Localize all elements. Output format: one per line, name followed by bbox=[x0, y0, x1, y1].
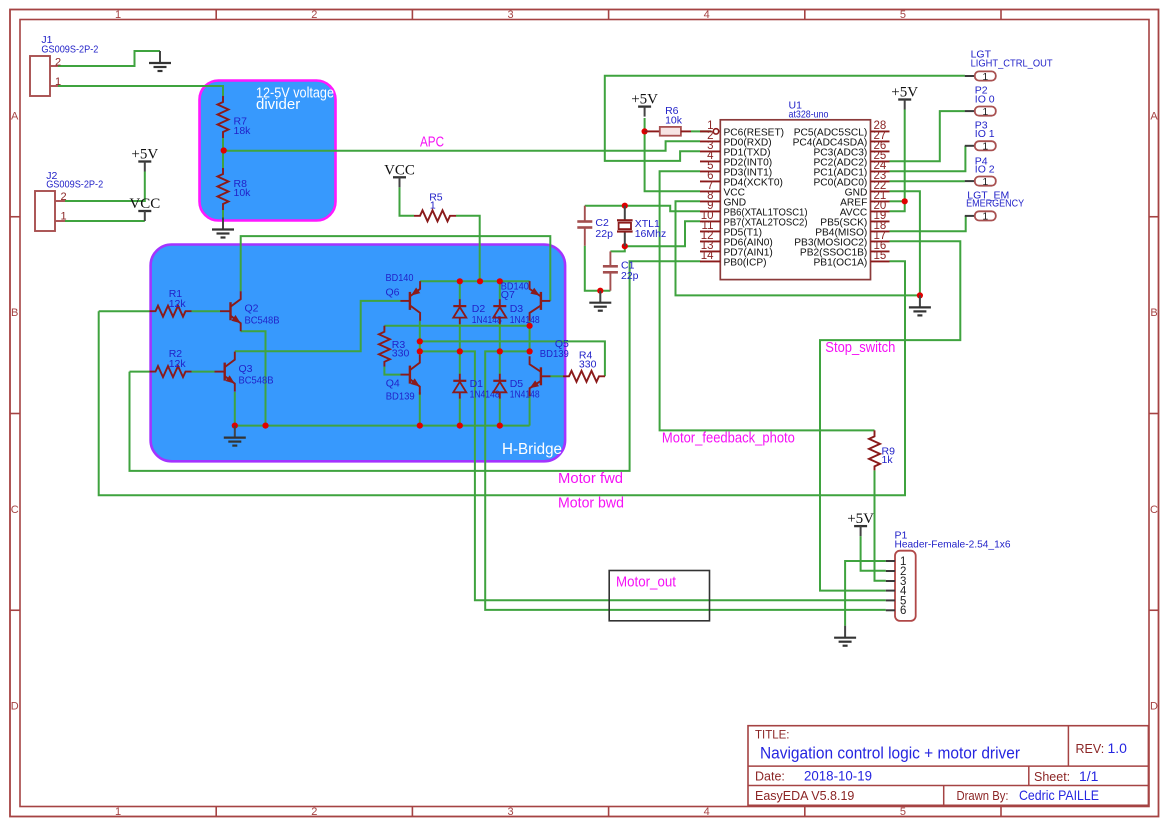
connector P2 IO 0 bbox=[965, 85, 996, 118]
svg-text:C: C bbox=[1150, 504, 1158, 516]
svg-text:D5: D5 bbox=[510, 378, 524, 390]
svg-text:2: 2 bbox=[61, 191, 67, 203]
svg-text:Header-Female-2.54_1x6: Header-Female-2.54_1x6 bbox=[895, 539, 1011, 551]
svg-text:22p: 22p bbox=[621, 270, 639, 282]
IC U1 at328-uno bbox=[700, 99, 890, 279]
junction top rail D2 bbox=[457, 278, 463, 284]
resistor R6 bbox=[645, 105, 691, 136]
resistor R1 bbox=[150, 288, 192, 317]
wire Q3 collector to Q6 base bbox=[235, 301, 401, 351]
header P1 Header-Female-2.54_1x6 bbox=[886, 530, 1011, 621]
svg-text:14: 14 bbox=[701, 250, 714, 262]
svg-text:EMERGENCY: EMERGENCY bbox=[966, 198, 1024, 210]
svg-text:1N4148: 1N4148 bbox=[470, 390, 500, 401]
transistor Q4 BD139 bbox=[386, 355, 420, 403]
ground (U1 GND) bbox=[909, 295, 931, 315]
wire Q5 base to R4 bbox=[551, 375, 564, 377]
junction +5V/R6/VCC pin7 bbox=[642, 128, 648, 134]
H-Bridge box bbox=[151, 245, 565, 462]
svg-text:330: 330 bbox=[392, 348, 410, 360]
junction divider/APC bbox=[221, 147, 227, 153]
svg-text:Q4: Q4 bbox=[386, 378, 400, 390]
transistor Q6 BD140 bbox=[386, 272, 421, 321]
svg-text:4: 4 bbox=[704, 9, 710, 21]
svg-text:TITLE:: TITLE: bbox=[755, 730, 790, 742]
connector J2 GS009S-2P-2 bbox=[35, 170, 103, 231]
svg-text:PB0(ICP): PB0(ICP) bbox=[724, 257, 767, 268]
wire U1 pin18 to LGT_EM bbox=[890, 216, 966, 231]
wire Q3 emitter down bbox=[234, 392, 236, 426]
+5V flag (U1 AREF/AVCC) bbox=[891, 85, 918, 110]
svg-text:Date:: Date: bbox=[755, 770, 785, 784]
wire R5 to H-bridge top rail bbox=[456, 216, 480, 281]
svg-text:2: 2 bbox=[55, 57, 61, 69]
net label APC bbox=[420, 135, 444, 151]
svg-text:BD139: BD139 bbox=[386, 391, 415, 403]
svg-text:Stop_switch: Stop_switch bbox=[825, 340, 895, 356]
wire R9 to P1 pin3 bbox=[875, 470, 886, 580]
svg-text:+5V: +5V bbox=[631, 92, 658, 108]
net label Motor bwd bbox=[558, 496, 624, 512]
wire D1 top bbox=[459, 351, 461, 374]
svg-text:1/1: 1/1 bbox=[1079, 768, 1099, 784]
net label Motor fwd bbox=[558, 471, 623, 487]
wire R1 to Q2 base bbox=[192, 310, 221, 312]
svg-text:+5V: +5V bbox=[131, 147, 158, 163]
wire D1 bottom bbox=[459, 399, 461, 426]
junction crystal top bbox=[622, 203, 628, 209]
svg-text:1N4148: 1N4148 bbox=[472, 315, 502, 326]
svg-text:at328-uno: at328-uno bbox=[789, 109, 829, 121]
12-5V voltage divider box bbox=[200, 81, 336, 221]
svg-text:Motor fwd: Motor fwd bbox=[558, 471, 623, 487]
transistor Q5 BD139 bbox=[530, 338, 569, 396]
svg-text:GS009S-2P-2: GS009S-2P-2 bbox=[46, 179, 103, 191]
svg-text:1: 1 bbox=[982, 106, 988, 118]
wire motor out 1 (rail to P1 pin5) bbox=[420, 351, 886, 600]
svg-text:Cedric PAILLE: Cedric PAILLE bbox=[1019, 787, 1099, 803]
wire J1 pin1 to R7 bbox=[58, 86, 223, 96]
ground (J1 pin2) bbox=[149, 51, 171, 71]
svg-text:APC: APC bbox=[420, 135, 444, 151]
svg-text:3: 3 bbox=[507, 806, 513, 818]
svg-text:1N4148: 1N4148 bbox=[510, 390, 540, 401]
junction right column R3 rail bbox=[527, 323, 533, 329]
svg-text:330: 330 bbox=[579, 358, 597, 370]
svg-text:PB1(OC1A): PB1(OC1A) bbox=[814, 257, 868, 268]
resistor R7 bbox=[218, 96, 252, 138]
junction D1 top bbox=[457, 348, 463, 354]
junction right column motor rail bbox=[527, 348, 533, 354]
svg-text:A: A bbox=[1150, 111, 1158, 123]
svg-text:2: 2 bbox=[311, 9, 317, 21]
wire R2 to Q3 base bbox=[192, 371, 215, 373]
svg-text:1: 1 bbox=[55, 76, 61, 88]
svg-text:1N4148: 1N4148 bbox=[510, 315, 540, 326]
svg-text:Drawn By:: Drawn By: bbox=[957, 789, 1009, 803]
capacitor C1 bbox=[603, 251, 639, 290]
svg-text:D3: D3 bbox=[510, 303, 524, 315]
wire D3 bottom bbox=[499, 324, 501, 351]
svg-text:VCC: VCC bbox=[129, 196, 160, 212]
svg-text:C: C bbox=[11, 504, 19, 516]
svg-text:15: 15 bbox=[874, 250, 887, 262]
svg-text:VCC: VCC bbox=[384, 162, 415, 178]
svg-text:+5V: +5V bbox=[847, 511, 874, 527]
svg-text:16Mhz: 16Mhz bbox=[635, 228, 667, 240]
Motor_out box bbox=[609, 571, 709, 621]
svg-text:Motor_out: Motor_out bbox=[616, 575, 676, 591]
wire Motor bwd net (R1 to U1 pin15) bbox=[99, 261, 905, 495]
svg-text:D: D bbox=[1150, 701, 1158, 713]
wire U1 pin20 AVCC bbox=[890, 201, 905, 211]
wire U1 pin22 GND bbox=[890, 191, 920, 295]
svg-text:IO 0: IO 0 bbox=[975, 93, 995, 105]
svg-text:H-Bridge: H-Bridge bbox=[502, 441, 562, 458]
resistor R3 bbox=[379, 326, 410, 375]
svg-text:A: A bbox=[11, 111, 19, 123]
wire U1 pin21 AREF bbox=[890, 200, 905, 202]
diode D5 1N4148 bbox=[493, 374, 540, 401]
wire U1 pin23 to P4 bbox=[890, 180, 965, 182]
junction GND net bbox=[917, 292, 923, 298]
net label Motor_feedback_photo bbox=[662, 431, 795, 447]
wire D2 top bbox=[459, 281, 461, 299]
wire U1 pin8 GND run bbox=[676, 201, 920, 295]
wire U1 pin25 to P2 bbox=[890, 111, 965, 161]
VCC flag (R5) bbox=[384, 162, 415, 187]
resistor R2 bbox=[150, 348, 192, 377]
wire D2 bottom bbox=[459, 324, 461, 351]
diode D2 1N4148 bbox=[453, 299, 502, 326]
ground (P1 pin1) bbox=[834, 626, 856, 646]
svg-text:REV:: REV: bbox=[1076, 742, 1105, 756]
wire R8 to ground bbox=[222, 210, 224, 218]
wire H-bridge top supply rail bbox=[420, 280, 529, 282]
wire R1 left bbox=[99, 310, 150, 312]
svg-text:1: 1 bbox=[982, 211, 988, 223]
svg-text:18k: 18k bbox=[234, 125, 252, 137]
svg-text:Q6: Q6 bbox=[386, 286, 400, 298]
junction ground rail D5 bbox=[497, 423, 503, 429]
svg-text:Motor_feedback_photo: Motor_feedback_photo bbox=[662, 431, 795, 447]
svg-text:10k: 10k bbox=[665, 115, 683, 127]
transistor Q7 BD140 bbox=[501, 280, 551, 321]
svg-text:D2: D2 bbox=[472, 303, 486, 315]
svg-text:1: 1 bbox=[115, 9, 121, 21]
junction crystal bottom bbox=[622, 243, 628, 249]
wire Q6 collector to Q4 collector bbox=[419, 321, 421, 355]
svg-text:5: 5 bbox=[900, 9, 906, 21]
svg-text:Q3: Q3 bbox=[239, 363, 253, 375]
wire R6 junction to U1 pin7 VCC bbox=[645, 131, 700, 191]
wire R2 left bbox=[130, 371, 150, 373]
svg-text:10k: 10k bbox=[234, 187, 252, 199]
wire D5 bottom bbox=[499, 399, 501, 426]
svg-text:1k: 1k bbox=[882, 454, 894, 466]
resistor R9 bbox=[869, 430, 895, 470]
wire motor out 2 (rail to P1 pin6) bbox=[485, 351, 886, 610]
svg-text:Q2: Q2 bbox=[245, 303, 259, 315]
svg-text:D1: D1 bbox=[470, 378, 484, 390]
wire U1 pin10 to crystal bottom bbox=[625, 221, 700, 246]
connector J1 GS009S-2P-2 bbox=[30, 34, 99, 96]
wire D5 top bbox=[499, 351, 501, 374]
svg-text:4: 4 bbox=[704, 806, 710, 818]
junction left column tap A bbox=[417, 338, 423, 344]
wire crystal top to U1 pin9 bbox=[585, 206, 700, 212]
connector LGT_EM EMERGENCY bbox=[965, 190, 1024, 223]
wire Motor_feedback_photo net (U1 pin5 to R9) bbox=[660, 171, 875, 430]
svg-text:Sheet:: Sheet: bbox=[1034, 770, 1070, 784]
wire H-bridge ground rail bbox=[235, 425, 530, 427]
wire APC net (divider junction to U1 pin2) bbox=[224, 141, 700, 150]
svg-text:1.0: 1.0 bbox=[1108, 740, 1128, 756]
resistor R5 bbox=[414, 192, 456, 222]
junction ground rail D1 bbox=[457, 423, 463, 429]
wire mid rail to R3 bbox=[384, 325, 529, 327]
connector P3 IO 1 bbox=[965, 120, 996, 153]
wire crystal bottom to C1 bbox=[610, 246, 624, 251]
wire Motor fwd net (R2 to U1 pin14) bbox=[130, 261, 701, 471]
+5V flag (P1) bbox=[847, 511, 874, 536]
VCC flag (J2) bbox=[129, 196, 160, 221]
wire J1 pin2 to ground bbox=[58, 51, 160, 66]
wire motor tap A to R4 bbox=[420, 341, 605, 376]
wire U1 pin3 TXD to LGT connector bbox=[605, 76, 965, 161]
ground (oscillator) bbox=[589, 291, 611, 311]
diode D1 1N4148 bbox=[453, 374, 500, 401]
svg-text:2018-10-19: 2018-10-19 bbox=[804, 768, 872, 784]
junction ground rail Q2 bbox=[262, 423, 268, 429]
junction top rail supply bbox=[477, 278, 483, 284]
svg-text:22p: 22p bbox=[595, 228, 613, 240]
wire +5V to P1 pin2 bbox=[861, 536, 886, 571]
svg-text:Motor bwd: Motor bwd bbox=[558, 496, 624, 512]
+5V flag (J2) bbox=[131, 147, 158, 172]
resistor R4 bbox=[563, 350, 605, 382]
svg-text:1: 1 bbox=[61, 211, 67, 223]
svg-text:12k: 12k bbox=[169, 298, 187, 310]
wire Stop_switch net (U1 pin17 to P1 pin4) bbox=[820, 241, 960, 590]
svg-text:1: 1 bbox=[982, 176, 988, 188]
junction ground rail Q3 bbox=[232, 423, 238, 429]
crystal XTL1 16Mhz bbox=[617, 206, 666, 247]
wire J2 pin1 to VCC bbox=[65, 220, 145, 222]
connector P4 IO 2 bbox=[965, 155, 996, 188]
svg-text:EasyEDA V5.8.19: EasyEDA V5.8.19 bbox=[755, 789, 854, 803]
wire C2 bottom to ground rail bbox=[585, 246, 611, 291]
wire Q7 collector to Q5 collector bbox=[529, 321, 531, 355]
svg-text:GS009S-2P-2: GS009S-2P-2 bbox=[41, 44, 98, 56]
wire Q5 emitter to ground rail bbox=[529, 392, 531, 426]
svg-text:D: D bbox=[11, 701, 19, 713]
junction oscillator ground bbox=[597, 288, 603, 294]
diode D3 1N4148 bbox=[493, 299, 540, 326]
svg-text:divider: divider bbox=[256, 96, 300, 113]
junction D5 top bbox=[497, 348, 503, 354]
resistor R8 bbox=[218, 168, 252, 210]
svg-text:2: 2 bbox=[311, 806, 317, 818]
wire P1 pin1 to ground bbox=[845, 561, 886, 626]
wire junction to R8 bbox=[222, 151, 224, 169]
svg-text:B: B bbox=[1150, 307, 1157, 319]
net label Stop_switch bbox=[825, 340, 895, 356]
svg-text:Navigation control logic + mot: Navigation control logic + motor driver bbox=[760, 744, 1020, 763]
svg-text:BC548B: BC548B bbox=[245, 314, 280, 326]
svg-text:+5V: +5V bbox=[891, 85, 918, 101]
connector LGT LIGHT_CTRL_OUT bbox=[965, 49, 1053, 83]
wire VCC to R5 bbox=[400, 187, 415, 216]
wire Q2 emitter to ground rail bbox=[241, 331, 266, 425]
wire U1 pin24 to P3 bbox=[890, 146, 966, 172]
svg-text:Q7: Q7 bbox=[501, 289, 515, 301]
svg-text:3: 3 bbox=[507, 9, 513, 21]
wire J2 pin2 to +5V bbox=[65, 172, 145, 202]
transistor Q2 BC548B bbox=[220, 291, 280, 331]
svg-text:BD139: BD139 bbox=[540, 348, 569, 360]
+5V flag (R6) bbox=[631, 92, 658, 117]
svg-text:IO 2: IO 2 bbox=[975, 164, 995, 176]
svg-text:1: 1 bbox=[982, 141, 988, 153]
svg-text:1: 1 bbox=[430, 199, 436, 211]
transistor Q3 BC548B bbox=[215, 352, 274, 392]
capacitor C2 bbox=[577, 206, 613, 246]
wire R6 to pin1 bubble bbox=[691, 130, 711, 132]
svg-text:LIGHT_CTRL_OUT: LIGHT_CTRL_OUT bbox=[971, 58, 1054, 70]
title block bbox=[748, 726, 1148, 806]
junction ground rail Q4 bbox=[417, 423, 423, 429]
wire D3 top bbox=[499, 281, 501, 299]
junction left column motor rail bbox=[417, 348, 423, 354]
junction AREF +5V bbox=[902, 198, 908, 204]
svg-text:6: 6 bbox=[900, 605, 906, 617]
wire R7 to junction bbox=[222, 138, 224, 151]
ground (H-bridge) bbox=[224, 426, 246, 446]
svg-text:IO 1: IO 1 bbox=[975, 128, 995, 140]
svg-text:1: 1 bbox=[982, 71, 988, 83]
wire Q4 emitter to ground rail bbox=[419, 392, 421, 426]
svg-text:B: B bbox=[11, 307, 18, 319]
wire +5V to R6 junction bbox=[644, 118, 646, 131]
wire +5V to AREF junction bbox=[904, 110, 906, 202]
svg-text:5: 5 bbox=[900, 806, 906, 818]
ground (voltage divider) bbox=[212, 218, 234, 238]
junction top rail D3 bbox=[497, 278, 503, 284]
svg-text:12k: 12k bbox=[169, 358, 187, 370]
svg-text:BC548B: BC548B bbox=[239, 375, 274, 387]
svg-text:1: 1 bbox=[115, 806, 121, 818]
svg-text:BD140: BD140 bbox=[386, 272, 414, 284]
wire Q2 collector to Q7 base bbox=[241, 236, 551, 301]
